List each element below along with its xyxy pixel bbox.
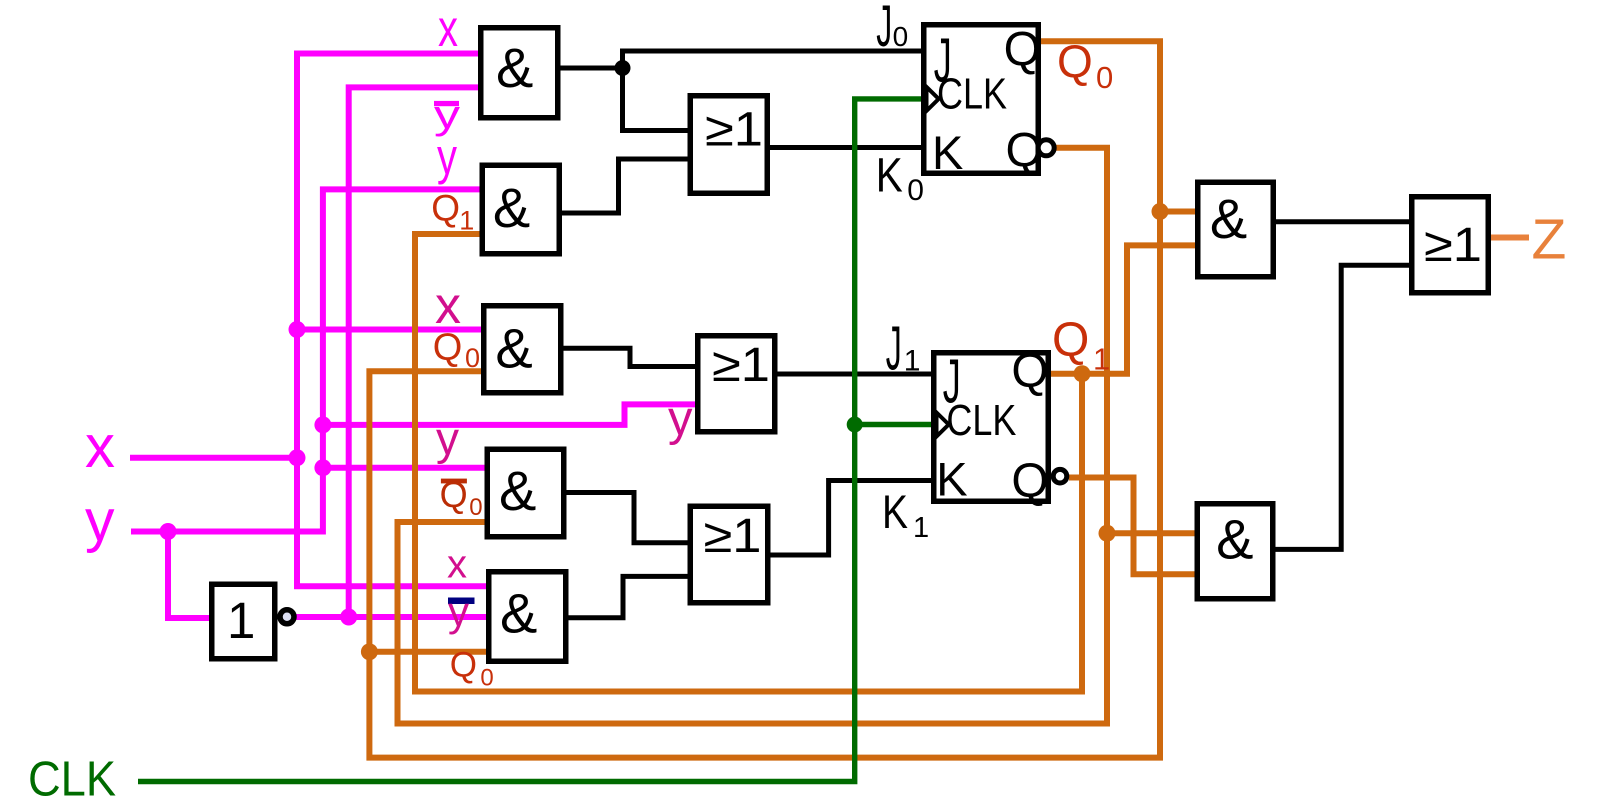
svg-text:1: 1 [913, 512, 929, 544]
svg-text:Q: Q [431, 188, 460, 229]
svg-text:0: 0 [469, 494, 482, 521]
svg-text:K: K [932, 126, 963, 179]
svg-text:&: & [495, 316, 532, 379]
svg-text:1: 1 [904, 344, 921, 377]
svg-text:Q: Q [433, 326, 463, 368]
svg-text:&: & [1216, 507, 1253, 570]
svg-text:0: 0 [893, 21, 909, 52]
svg-text:Q: Q [440, 474, 468, 515]
svg-text:K: K [876, 149, 903, 202]
svg-text:Q: Q [1004, 23, 1041, 76]
svg-text:&: & [500, 581, 537, 644]
svg-text:Q: Q [1011, 455, 1048, 508]
svg-text:Q: Q [1052, 314, 1089, 367]
svg-text:&: & [496, 36, 533, 99]
svg-text:&: & [499, 459, 536, 522]
svg-text:x: x [447, 542, 467, 586]
svg-text:≥1: ≥1 [1424, 219, 1482, 272]
svg-text:0: 0 [465, 343, 480, 373]
svg-text:y: y [668, 392, 693, 446]
svg-text:J: J [943, 347, 961, 416]
svg-text:≥1: ≥1 [705, 104, 763, 157]
svg-text:≥1: ≥1 [712, 339, 770, 392]
svg-text:x: x [438, 0, 458, 58]
svg-text:J: J [886, 314, 902, 383]
svg-text:1: 1 [227, 592, 255, 649]
svg-text:0: 0 [907, 174, 924, 207]
svg-text:x: x [85, 413, 115, 480]
svg-text:0: 0 [1096, 60, 1113, 95]
svg-text:K: K [882, 485, 908, 538]
svg-text:Q: Q [1006, 125, 1043, 178]
svg-text:Z: Z [1532, 208, 1567, 272]
svg-text:Q: Q [450, 646, 477, 685]
svg-text:J: J [876, 0, 892, 59]
svg-text:≥1: ≥1 [704, 510, 762, 563]
svg-text:&: & [1210, 187, 1247, 250]
svg-text:1: 1 [459, 205, 474, 235]
svg-text:y: y [85, 487, 115, 553]
svg-text:J: J [934, 26, 952, 95]
svg-text:CLK: CLK [28, 752, 116, 804]
svg-text:y: y [436, 413, 459, 465]
svg-text:&: & [493, 176, 530, 239]
svg-text:1: 1 [1093, 341, 1110, 376]
svg-text:0: 0 [480, 665, 493, 692]
svg-text:Q: Q [1057, 35, 1093, 87]
svg-text:Q: Q [1011, 345, 1048, 398]
svg-text:y: y [448, 588, 469, 635]
svg-text:K: K [936, 452, 967, 505]
svg-text:y: y [434, 93, 460, 137]
